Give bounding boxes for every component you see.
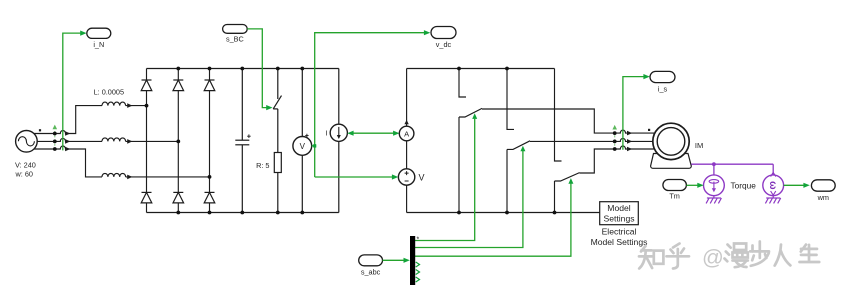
port pill v_dc	[431, 27, 456, 39]
signal wire w to wm	[784, 184, 808, 186]
voltmeter V1	[293, 137, 312, 156]
arrow into i_s	[643, 74, 649, 79]
stator ammeter dots	[613, 131, 617, 151]
arrow into voltmeter	[311, 144, 315, 148]
inductor L phase B	[102, 138, 126, 142]
svg-text:Settings: Settings	[603, 214, 634, 224]
controlled voltage source V2	[398, 169, 414, 185]
svg-text:ω: ω	[767, 181, 778, 190]
wire phase A source	[34, 106, 103, 134]
resistor R	[274, 153, 281, 173]
inductor L phase C	[102, 173, 126, 177]
port pill Tm	[663, 180, 687, 191]
svg-text:Tm: Tm	[669, 191, 680, 200]
gate signal wire leg3	[415, 183, 571, 256]
gate signal wire leg1	[415, 119, 475, 241]
signal wire to i_N	[63, 33, 85, 150]
svg-text:wm: wm	[817, 193, 829, 202]
rectifier leg 1	[146, 69, 148, 213]
left vertical wires	[406, 69, 408, 127]
switch S_BC branch	[273, 69, 281, 153]
stator wire arrows	[627, 131, 632, 152]
wire phase C to rectifier	[126, 176, 210, 178]
mechanical shaft wire	[691, 164, 773, 175]
inverter leg 1	[459, 69, 482, 213]
ground below speed sensor	[765, 196, 780, 204]
demux unused ports	[416, 262, 420, 282]
motor base	[651, 154, 692, 169]
gate arrow leg2	[520, 146, 525, 152]
phase C output wire	[580, 146, 655, 173]
svg-text:@: @	[702, 246, 724, 270]
green dashed probe arrow (stator)	[614, 132, 616, 150]
inverter junction dots	[457, 67, 556, 215]
svg-text:w: 60: w: 60	[15, 170, 33, 179]
arrow into demux	[404, 258, 410, 263]
ammeter A1	[399, 126, 414, 141]
phase B output wire	[530, 138, 654, 141]
svg-text:I: I	[325, 128, 327, 137]
induction machine IM	[653, 123, 689, 159]
svg-text:R: 5: R: 5	[256, 161, 269, 170]
rectifier leg 2	[177, 69, 179, 213]
svg-text:Torque: Torque	[731, 181, 757, 191]
arrow into ammeter	[393, 131, 399, 136]
signal wire s_BC to switch	[247, 29, 266, 108]
svg-text:V: 240: V: 240	[15, 161, 36, 170]
speed sensor w	[763, 175, 784, 196]
torque source	[704, 175, 725, 196]
svg-text:v_dc: v_dc	[436, 40, 452, 49]
svg-text:V: V	[419, 173, 425, 183]
dc bottom bus	[147, 212, 339, 214]
svg-text:L: 0.0005: L: 0.0005	[94, 88, 124, 97]
stator plus mark	[648, 129, 650, 131]
dc top bus	[147, 68, 339, 70]
wire phase B source	[37, 138, 102, 141]
svg-text:s_BC: s_BC	[226, 35, 244, 44]
diode D2 bottom leg1	[141, 192, 152, 203]
gate signal wire leg2	[415, 151, 523, 248]
svg-text:V: V	[300, 142, 306, 151]
shaft junction dot	[712, 162, 716, 166]
ammeter direction arrow	[404, 120, 408, 124]
port pill i_s	[650, 71, 675, 82]
svg-text:IM: IM	[695, 141, 703, 150]
arrow into i_N	[80, 30, 86, 35]
model settings block	[600, 202, 639, 225]
wire below resistor	[277, 173, 279, 213]
junction dots rectifier	[145, 67, 212, 215]
capacitor plus mark	[247, 134, 251, 138]
svg-text:Model: Model	[607, 203, 630, 213]
wire arrows after source measurement	[65, 103, 132, 179]
watermark	[639, 242, 819, 269]
demux bus bar	[410, 236, 415, 285]
svg-text:s_abc: s_abc	[361, 268, 381, 277]
AC source V_ac	[16, 129, 42, 152]
port pill s_BC	[223, 25, 248, 34]
inverter bottom bus	[407, 212, 600, 214]
svg-text:*: *	[417, 237, 420, 244]
signal net v_meter	[312, 33, 429, 177]
arrow into I source	[347, 131, 353, 136]
phase A output wire	[482, 109, 654, 133]
diode D3 top leg2	[173, 80, 184, 91]
signal wire ammeter to I source	[351, 132, 395, 134]
inverter leg 3	[555, 69, 580, 213]
arrow into switch	[266, 105, 272, 110]
inverter leg 2	[507, 69, 530, 213]
port pill wm	[811, 180, 835, 191]
voltmeter V1 branch	[301, 69, 303, 213]
svg-text:Electrical: Electrical	[602, 226, 637, 236]
arrow into controlled source V	[392, 174, 398, 179]
diode D5 top leg3	[204, 80, 215, 91]
svg-text:i_s: i_s	[658, 85, 668, 94]
inductor L phase A	[102, 102, 126, 106]
arrow into v_dc	[424, 30, 430, 35]
diode D6 bottom leg3	[204, 192, 215, 203]
green dashed probe arrow (source)	[54, 129, 56, 150]
diode D1 top leg1	[141, 80, 152, 91]
arrow into wm	[803, 183, 809, 188]
port pill s_abc	[359, 255, 383, 266]
wire phase B to rectifier	[126, 140, 179, 142]
wire phase C source	[34, 146, 103, 177]
gate arrow leg3	[568, 178, 573, 184]
dc bus junction dots	[240, 67, 304, 215]
wire phase A to rectifier	[126, 105, 147, 107]
signal wire s_abc to demux	[383, 259, 404, 261]
green junction dot	[313, 144, 316, 147]
diode D4 bottom leg2	[173, 192, 184, 203]
svg-text:i_N: i_N	[93, 40, 104, 49]
svg-text:Model Settings: Model Settings	[591, 237, 648, 247]
ground below torque source	[706, 196, 721, 204]
ammeter dots on source wires	[53, 132, 57, 151]
arrow into torque source	[697, 183, 703, 188]
signal wire to i_s	[623, 77, 648, 150]
gate arrow leg1	[472, 113, 477, 119]
port pill i_N	[87, 28, 111, 38]
svg-text:A: A	[404, 129, 409, 138]
capacitor C1	[235, 69, 249, 213]
inverter top bus	[407, 68, 555, 70]
signal wire Tm to torque	[686, 184, 697, 186]
rectifier leg 3	[209, 69, 211, 213]
current source I1 (dc right)	[338, 69, 340, 213]
